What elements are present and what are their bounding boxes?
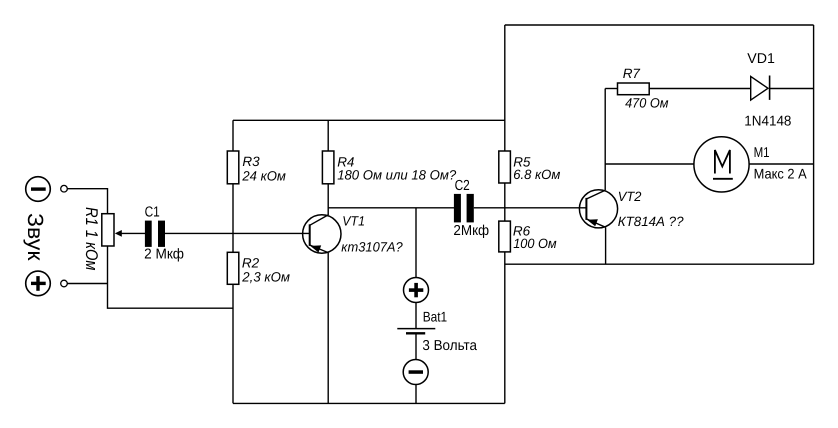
label VT2 xyxy=(618,189,642,204)
svg-text:R1 1 кОм: R1 1 кОм xyxy=(82,207,101,271)
wire big box left edge xyxy=(504,25,506,403)
resistor R1 xyxy=(102,214,114,246)
wire VT2 collector up to R7 xyxy=(604,89,606,191)
svg-text:100 Ом: 100 Ом xyxy=(513,236,556,251)
node input-plus small circle xyxy=(61,280,68,287)
label 2,3 кОм xyxy=(241,270,290,285)
wire battery branch xyxy=(415,208,417,278)
battery Bat1 minus terminal xyxy=(403,360,428,385)
label 470 Ом xyxy=(625,95,668,110)
terminal plus (input) xyxy=(26,271,51,296)
label 1N4148 xyxy=(744,114,791,130)
svg-text:R3: R3 xyxy=(242,154,260,169)
label M1 xyxy=(754,145,770,161)
transistor VT1 xyxy=(303,215,341,253)
wire R1 bottom to middle box left edge xyxy=(108,246,234,308)
resistor R3 xyxy=(227,151,239,184)
node input-minus small circle xyxy=(61,185,68,192)
svg-text:24 кОм: 24 кОм xyxy=(241,168,285,183)
label Макс 2 А xyxy=(754,165,808,181)
wire minus circle to bottom rail xyxy=(415,385,417,404)
wire plate to minus circle xyxy=(415,334,417,360)
svg-text:КТ814А ??: КТ814А ?? xyxy=(618,214,684,229)
label VD1 xyxy=(747,51,775,67)
label VT1 xyxy=(342,213,365,228)
wire motor tee xyxy=(605,163,694,165)
battery plate short (-) xyxy=(406,332,425,334)
label R6 xyxy=(513,224,531,239)
wire middle box top rail xyxy=(233,119,505,121)
svg-text:R2: R2 xyxy=(242,255,260,270)
svg-text:1N4148: 1N4148 xyxy=(744,114,791,130)
wiper arrow into R1 xyxy=(115,230,145,237)
label 2Мкф xyxy=(453,223,489,239)
wire middle box left edge xyxy=(232,120,234,403)
wire middle box bottom rail xyxy=(233,402,505,404)
label 100 Ом xyxy=(513,236,556,251)
wire C1 to VT1 base xyxy=(165,232,310,234)
wire collector to R7 left xyxy=(605,88,617,90)
label 24 кОм xyxy=(241,168,285,183)
label C1 xyxy=(145,205,160,221)
label R7 xyxy=(623,66,641,81)
svg-text:R7: R7 xyxy=(623,66,641,81)
svg-text:Bat1: Bat1 xyxy=(423,308,448,324)
resistor R7 xyxy=(618,83,650,95)
svg-text:Макс 2 А: Макс 2 А xyxy=(754,165,808,181)
svg-text:3 Вольта: 3 Вольта xyxy=(422,338,477,354)
resistor R2 xyxy=(227,252,239,284)
wire diode to right edge xyxy=(770,88,814,90)
label 2 Мкф xyxy=(144,246,184,262)
capacitor C2 xyxy=(454,194,474,223)
wire plus circle to plate xyxy=(415,303,417,329)
capacitor C1 xyxy=(145,221,165,247)
svg-text:180 Ом или 18 Ом?: 180 Ом или 18 Ом? xyxy=(337,167,456,182)
resistor R5 xyxy=(499,151,511,183)
svg-text:M1: M1 xyxy=(754,145,770,161)
svg-text:VT1: VT1 xyxy=(342,213,365,228)
label Звук xyxy=(23,213,48,261)
label 3 Вольта xyxy=(422,338,477,354)
svg-text:Звук: Звук xyxy=(23,213,48,261)
label R3 xyxy=(242,154,260,169)
wire VT1 emitter to bottom rail xyxy=(327,253,329,404)
svg-text:кт3107А?: кт3107А? xyxy=(341,239,403,254)
terminal minus (input) xyxy=(26,177,51,202)
wire input minus to R1 top xyxy=(67,189,107,214)
label Bat1 xyxy=(423,308,448,324)
label C2 xyxy=(455,178,470,194)
svg-text:2,3 кОм: 2,3 кОм xyxy=(241,270,290,285)
label кт3107А? xyxy=(341,239,403,254)
svg-text:C2: C2 xyxy=(455,178,470,194)
wire R4 branch vertical xyxy=(327,120,329,215)
label 180 Ом или 18 Ом? xyxy=(337,167,456,182)
label R1 1 кОм xyxy=(82,207,101,271)
battery Bat1 plus terminal xyxy=(404,278,429,303)
resistor R6 xyxy=(499,221,511,252)
transistor VT2 xyxy=(579,190,617,228)
wire C2 to VT2 base xyxy=(474,207,587,209)
resistor R4 xyxy=(322,151,334,184)
label 6.8 кОм xyxy=(513,167,560,182)
wire big box bottom rail xyxy=(505,263,814,265)
diode VD1 xyxy=(751,76,770,101)
svg-text:C1: C1 xyxy=(145,205,160,221)
wire big box top rail xyxy=(505,24,814,26)
label R2 xyxy=(242,255,260,270)
svg-text:VD1: VD1 xyxy=(747,51,775,67)
svg-text:6.8 кОм: 6.8 кОм xyxy=(513,167,560,182)
label R4 xyxy=(337,155,354,170)
wire motor to right edge xyxy=(749,163,814,165)
svg-text:VT2: VT2 xyxy=(618,189,642,204)
wire collector node to battery and C2 xyxy=(328,207,454,209)
wire R7 to diode xyxy=(649,88,751,90)
label КТ814А ?? xyxy=(618,214,684,229)
motor M1 xyxy=(694,137,749,192)
wire VT2 emitter to bottom rail xyxy=(605,227,607,264)
svg-text:470 Ом: 470 Ом xyxy=(625,95,668,110)
label R5 xyxy=(513,154,531,169)
battery plate long (+) xyxy=(397,328,435,330)
wire input plus to R1 bottom xyxy=(67,283,107,285)
svg-text:2 Мкф: 2 Мкф xyxy=(144,246,184,262)
svg-text:2Мкф: 2Мкф xyxy=(453,223,489,239)
wire big box right edge xyxy=(813,25,815,264)
